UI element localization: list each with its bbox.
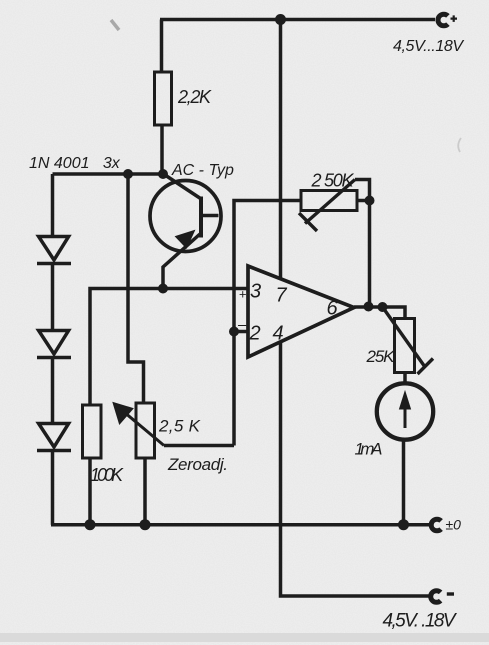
node dot emitter junction <box>158 284 168 294</box>
wire V+ to pin 7 <box>279 20 283 280</box>
node dot output 1 <box>364 302 374 312</box>
diode D2 <box>37 331 71 358</box>
node dot pin2 <box>229 327 239 337</box>
svg-text:6: 6 <box>327 298 339 320</box>
diode D1 <box>37 237 71 264</box>
wire wiper to pin2 riser <box>164 444 234 448</box>
node dot left branch <box>123 169 133 179</box>
svg-text:100K: 100K <box>90 465 124 485</box>
wire R2,2K to node <box>160 125 164 174</box>
node dot rail 100K <box>85 519 96 530</box>
svg-text:–: – <box>237 317 247 334</box>
wire pin2 stub <box>234 330 248 334</box>
svg-text:AC - Typ: AC - Typ <box>171 162 234 179</box>
resistor 100K <box>83 405 102 458</box>
node dot top rail <box>275 14 286 25</box>
node dot output 2 <box>378 302 388 312</box>
svg-text:Zeroadj.: Zeroadj. <box>167 455 228 474</box>
potentiometer 250K body <box>301 191 357 211</box>
wire D3 to bottom rail <box>51 451 55 525</box>
bottom scan band <box>0 633 489 642</box>
wire D1 to D2 <box>51 264 55 332</box>
node dot collector <box>158 169 168 179</box>
wire 2,5K to rail <box>143 458 147 525</box>
wire output to 25K <box>354 307 405 319</box>
wire 250K right + wiper link <box>355 180 370 201</box>
wire 250K to output <box>368 201 372 307</box>
terminal minus <box>431 591 454 603</box>
svg-text:2,2K: 2,2K <box>177 87 212 107</box>
svg-text:1N 4001 3x: 1N 4001 3x <box>29 155 121 172</box>
wire pin4 V- down <box>281 342 431 596</box>
svg-text:4,5V. .18V: 4,5V. .18V <box>383 611 458 632</box>
potentiometer 250K wiper arrow <box>299 180 355 232</box>
svg-text:7: 7 <box>276 285 288 307</box>
svg-text:±0: ±0 <box>446 517 462 533</box>
wire diode chain segment 1 <box>51 174 55 237</box>
resistor 2,2K <box>155 72 172 125</box>
wire top rail <box>160 18 435 22</box>
svg-text:2: 2 <box>249 323 261 345</box>
node dot rail meter <box>398 519 409 530</box>
transistor Q1 AC-Typ <box>150 174 221 289</box>
op-amp U1 <box>248 266 354 357</box>
terminal 0 <box>431 519 441 531</box>
potentiometer 2,5K wiper arrow <box>113 403 164 446</box>
stray mark right <box>458 138 461 152</box>
svg-text:+: + <box>239 286 247 301</box>
terminal + <box>438 14 457 26</box>
wire bottom rail <box>51 523 429 527</box>
meter M1 1mA <box>377 383 433 439</box>
potentiometer 25K wiper arrow <box>383 307 434 374</box>
wire 100K to rail <box>88 458 92 525</box>
svg-text:4: 4 <box>273 323 284 345</box>
svg-text:2 50K: 2 50K <box>311 171 355 191</box>
wire pin2 riser (250K left to zeroadj) <box>234 201 301 446</box>
diode D3 <box>37 424 71 451</box>
wire D2 to D3 <box>51 358 55 425</box>
node dot 250K right <box>365 196 375 206</box>
node dot rail 2,5K <box>140 519 151 530</box>
wire branch to zero pot (jog) <box>128 174 144 403</box>
wire left horizontal to diodes <box>53 172 165 176</box>
smudge top-left <box>111 20 119 30</box>
wire meter to rail <box>402 440 406 525</box>
svg-text:4,5V...18V: 4,5V...18V <box>393 38 464 55</box>
potentiometer 25K body <box>395 319 415 373</box>
svg-text:1m A: 1m A <box>355 440 383 459</box>
wire from top rail to R 2,2K <box>160 20 164 73</box>
svg-text:25K: 25K <box>366 347 396 366</box>
wire 25K to meter <box>403 373 407 385</box>
svg-text:2,5 K: 2,5 K <box>158 417 201 436</box>
potentiometer 2,5K body <box>136 403 155 458</box>
wire emitter rail to opamp pin3 <box>90 289 248 406</box>
svg-text:3: 3 <box>250 281 261 303</box>
